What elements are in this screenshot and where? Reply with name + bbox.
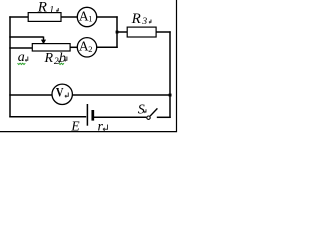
svg-text:1: 1 xyxy=(88,14,92,24)
svg-text:R: R xyxy=(37,0,47,15)
svg-text:E: E xyxy=(70,119,80,134)
svg-text:r: r xyxy=(98,120,104,135)
svg-text:b: b xyxy=(59,51,66,66)
svg-text:a: a xyxy=(18,50,25,65)
svg-text:S: S xyxy=(138,103,145,118)
svg-text:V: V xyxy=(56,85,64,100)
svg-text:1: 1 xyxy=(49,5,54,16)
svg-text:R: R xyxy=(44,51,54,66)
svg-text:R: R xyxy=(131,11,141,27)
svg-text:2: 2 xyxy=(88,44,92,54)
svg-text:3: 3 xyxy=(141,16,147,27)
